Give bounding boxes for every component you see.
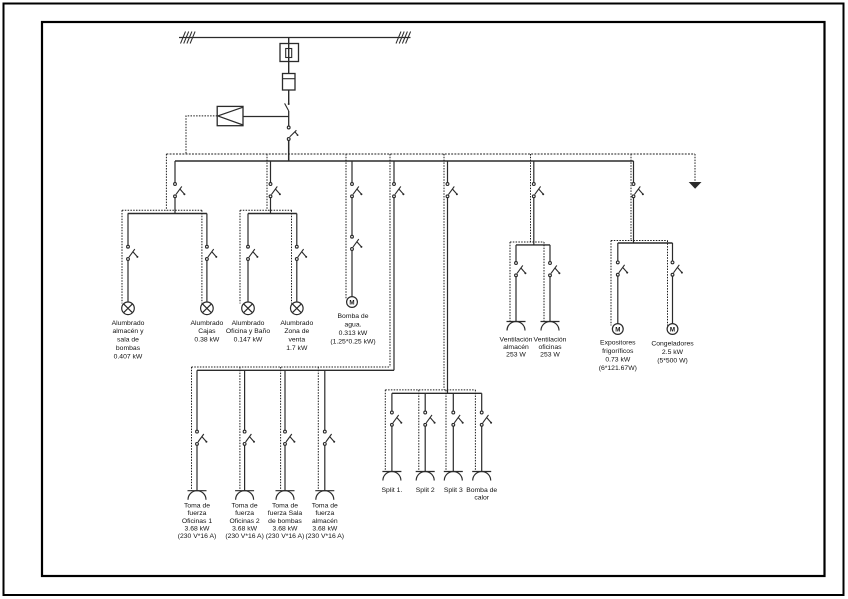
lamp alumbrado almacen [122,302,135,315]
earth wire split 2 [418,390,420,472]
earth wire toma horizontal [192,366,391,368]
svg-text:de bombas: de bombas [268,518,302,525]
earth wire frig horizontal [611,240,668,242]
svg-text:Expositores: Expositores [600,340,636,347]
label congeladores [651,341,694,365]
wire drop expositores [617,243,619,261]
socket toma almacen [315,491,334,500]
socket ventilacion oficinas [541,322,560,331]
svg-text:Toma de: Toma de [184,503,210,510]
svg-text:Oficina y Baño: Oficina y Baño [226,328,270,335]
breaker bomba de calor [480,411,492,426]
label alumbrado oficina [226,320,270,344]
wire main drop [288,38,290,105]
wire drop toma almacen [324,370,326,430]
earth wire toma almacen [317,367,319,491]
earth wire toma oficinas 2 [239,367,241,491]
svg-text:3.68 kW: 3.68 kW [312,525,338,532]
breaker alumbrado cajas [206,245,218,260]
breaker congeladores [671,261,683,276]
wire group1 horizontal [128,213,207,215]
breaker bomba 2 [351,235,363,250]
svg-text:1.7 kW: 1.7 kW [286,345,308,352]
svg-text:Alumbrado: Alumbrado [112,320,145,327]
wire drop alumbrado oficina [247,214,249,246]
wire dashed ICP earth [186,116,217,154]
hatch marks left [181,32,196,44]
breaker split 3 [452,411,464,426]
wire drop split 3 [452,393,454,411]
socket toma oficinas 1 [188,491,207,500]
svg-text:almacén y: almacén y [113,328,145,335]
breaker toma [393,183,405,198]
earth arrow [689,154,702,189]
wire group2 horizontal [248,213,297,215]
label split 3 [444,487,463,494]
earth wire alumbrado almacen [121,210,123,303]
svg-text:almacén: almacén [312,518,338,525]
main breaker [287,126,298,140]
wire to ICP [243,116,289,118]
lamp alumbrado zona venta [291,302,304,315]
socket toma oficinas 2 [235,491,254,500]
svg-text:Ventilación: Ventilación [534,336,567,343]
wire drop alumbrado almacen [127,214,129,246]
label ventilacion almacen [500,336,533,358]
svg-text:Toma de: Toma de [232,503,258,510]
label expositores [599,340,637,373]
socket split 1 [382,472,401,481]
svg-text:Split 2: Split 2 [416,487,435,494]
svg-text:(6*121.67W): (6*121.67W) [599,365,637,372]
wire split horizontal [392,392,482,394]
ICP box [217,106,243,125]
earth bus dashed [166,153,695,155]
earth wire F1 [165,154,167,210]
svg-text:Zona de: Zona de [284,328,309,335]
label split 1 [382,487,403,494]
socket split 2 [416,472,435,481]
svg-text:oficinas: oficinas [538,344,562,351]
breaker toma almacen [323,430,335,445]
earth wire bomba de calor [474,390,476,472]
wire branch frig [633,161,635,183]
breaker alumbrado almacen [127,245,139,260]
earth wire bomba [345,154,347,300]
wire branch toma [393,161,395,183]
breaker vent [532,183,544,198]
earth wire congeladores [667,241,669,326]
wire toma horizontal [197,369,394,371]
wire [288,140,290,161]
svg-text:M: M [349,299,354,306]
breaker split [446,183,458,198]
wire alumbrado almacen [127,260,129,302]
earth wire toma oficinas 1 [191,367,193,491]
svg-text:agua.: agua. [344,322,361,329]
svg-text:(5*500 W): (5*500 W) [657,358,688,365]
energy meter [283,74,296,91]
breaker F2 [269,183,281,198]
socket ventilacion almacen [507,322,526,331]
svg-text:Bomba de: Bomba de [338,313,369,320]
svg-text:Oficinas 1: Oficinas 1 [182,518,212,525]
svg-text:0.313 kW: 0.313 kW [339,330,368,337]
earth wire toma sala bombas [280,367,282,491]
wire split 1 [391,426,393,471]
svg-text:Ventilación: Ventilación [500,336,533,343]
main switch [285,103,290,111]
wire branch split [447,161,449,183]
svg-text:fuerza: fuerza [315,510,334,517]
svg-text:(1.25*0.25 kW): (1.25*0.25 kW) [330,339,375,346]
wire bomba de calor [481,426,483,471]
label alumbrado cajas [190,320,223,344]
breaker split 2 [424,411,436,426]
wire vent down [533,198,535,245]
breaker toma sala bombas [284,430,296,445]
wire [351,250,353,296]
svg-text:Oficinas 2: Oficinas 2 [229,518,259,525]
wire toma sala bombas [284,445,286,490]
wire drop toma oficinas 2 [244,370,246,430]
breaker ventilacion almacen [515,262,527,277]
wire split 3 [452,426,454,471]
socket toma sala bombas [276,491,295,500]
earth wire expositores [610,241,612,326]
svg-text:0.73 kW: 0.73 kW [605,357,631,364]
wire toma almacen [324,445,326,490]
wire F1 down [174,198,176,214]
lamp alumbrado cajas [201,302,214,315]
wire congeladores [672,276,674,324]
label toma almacen [306,503,345,540]
motor expositores [612,324,623,335]
wire expositores [617,276,619,324]
earth wire split 1 [384,390,386,472]
earth wire ventilacion oficinas [543,242,545,322]
earth wire alumbrado oficina [239,210,241,303]
wire [288,111,290,126]
wire frig down [633,198,635,243]
svg-text:(230 V*16 A): (230 V*16 A) [178,533,217,540]
earth wire vent feed [530,154,532,242]
label alumbrado zona venta [280,320,313,352]
svg-text:(230 V*16 A): (230 V*16 A) [266,533,305,540]
socket bomba de calor [472,472,491,481]
svg-text:Bomba de: Bomba de [466,487,497,494]
svg-text:frigoríficos: frigoríficos [602,348,634,355]
earth wire F2 [266,154,268,210]
label toma sala bombas [266,503,305,540]
wire toma down [393,198,395,371]
earth wire alumbrado zona venta [291,210,293,303]
breaker alumbrado oficina [247,245,259,260]
wire split down [447,198,449,394]
svg-text:fuerza: fuerza [188,510,207,517]
distribution bus [175,160,634,162]
wire branch bomba [351,161,353,183]
svg-text:(230 V*16 A): (230 V*16 A) [225,533,264,540]
label toma oficinas 1 [178,503,217,540]
wire drop bomba de calor [481,393,483,411]
svg-text:Toma de: Toma de [272,503,298,510]
breaker bomba 1 [351,183,363,198]
breaker frig [632,183,644,198]
svg-text:253 W: 253 W [506,351,526,358]
label bomba de calor [466,487,497,502]
wire ventilacion oficinas [549,277,551,322]
svg-text:Split 1.: Split 1. [382,487,403,494]
breaker expositores [616,261,628,276]
wire ventilacion almacen [515,277,517,322]
svg-text:Split 3: Split 3 [444,487,463,494]
svg-text:sala de: sala de [117,337,139,344]
wire drop alumbrado zona venta [296,214,298,246]
svg-text:(230 V*16 A): (230 V*16 A) [306,533,345,540]
svg-text:3.68 kW: 3.68 kW [273,525,299,532]
breaker ventilacion oficinas [549,262,561,277]
svg-text:0.38 kW: 0.38 kW [194,337,220,344]
wire drop toma sala bombas [284,370,286,430]
wire drop ventilacion almacen [515,245,517,262]
wire drop congeladores [672,243,674,261]
wire drop split 2 [424,393,426,411]
wire drop toma oficinas 1 [196,370,198,430]
motor congeladores [667,324,678,335]
svg-text:Cajas: Cajas [198,328,216,335]
breaker F1 [174,183,186,198]
wire branch F1 [174,161,176,183]
wire alumbrado cajas [206,260,208,302]
earth wire group1 horizontal [122,209,202,211]
svg-text:253 W: 253 W [540,351,560,358]
earth wire split feed [443,154,445,390]
svg-text:M: M [670,326,675,333]
socket split 3 [444,472,463,481]
breaker toma oficinas 1 [196,430,208,445]
wire drop split 1 [391,393,393,411]
svg-text:2.5 kW: 2.5 kW [662,349,684,356]
svg-text:Alumbrado: Alumbrado [280,320,313,327]
svg-text:3.68 kW: 3.68 kW [232,525,258,532]
wire split 2 [424,426,426,471]
breaker toma oficinas 2 [243,430,255,445]
earth wire vent horizontal [510,241,544,243]
wire branch F2 [270,161,272,183]
wire frig horizontal [618,242,673,244]
earth wire split 3 [445,390,447,472]
wire toma oficinas 1 [196,445,198,490]
breaker split 1 [391,411,403,426]
wire [351,198,353,236]
wire branch vent [533,161,535,183]
earth wire frig feed [630,154,632,241]
svg-text:Toma de: Toma de [312,503,338,510]
wire F2 down [270,198,272,214]
earth wire alumbrado cajas [201,210,203,303]
wire drop alumbrado cajas [206,214,208,246]
svg-text:fuerza Sala: fuerza Sala [268,510,303,517]
svg-text:Alumbrado: Alumbrado [232,320,265,327]
earth wire group2 horizontal [240,209,292,211]
wire alumbrado oficina [247,260,249,302]
breaker alumbrado zona venta [295,245,307,260]
svg-text:Alumbrado: Alumbrado [190,320,223,327]
label split 2 [416,487,435,494]
lamp alumbrado oficina [242,302,255,315]
earth wire split horizontal [385,389,475,391]
supply line [179,37,411,39]
fuse box CGP [280,44,299,62]
label bomba de agua [330,313,375,346]
wire alumbrado zona venta [296,260,298,302]
label ventilacion oficinas [534,336,567,358]
wire vent horizontal [516,244,550,246]
svg-text:fuerza: fuerza [235,510,254,517]
label alumbrado almacen [112,320,145,361]
svg-text:3.68 kW: 3.68 kW [185,525,211,532]
wire drop ventilacion oficinas [549,245,551,262]
svg-text:Congeladores: Congeladores [651,341,694,348]
hatch marks right [396,32,411,44]
svg-text:bombas: bombas [116,345,141,352]
svg-text:calor: calor [474,494,489,501]
earth wire toma feed [389,154,391,367]
label toma oficinas 2 [225,503,264,540]
wire toma oficinas 2 [244,445,246,490]
svg-text:almacén: almacén [503,344,529,351]
motor bomba de agua [347,297,358,308]
svg-text:venta: venta [288,337,305,344]
earth wire ventilacion almacen [509,242,511,322]
svg-text:M: M [615,326,620,333]
svg-text:0.147 kW: 0.147 kW [234,337,263,344]
svg-text:0.407 kW: 0.407 kW [114,353,143,360]
